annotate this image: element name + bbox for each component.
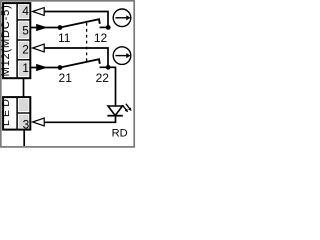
svg-text:22: 22 — [96, 71, 110, 85]
svg-text:3: 3 — [23, 118, 30, 132]
svg-text:21: 21 — [59, 71, 73, 85]
svg-text:2: 2 — [22, 43, 29, 57]
svg-text:12: 12 — [94, 31, 108, 45]
svg-text:RD: RD — [112, 128, 128, 140]
svg-text:LED: LED — [0, 96, 12, 126]
svg-text:4: 4 — [22, 4, 29, 18]
svg-text:M12(MDC-5): M12(MDC-5) — [0, 4, 12, 76]
svg-text:1: 1 — [22, 61, 29, 75]
svg-text:5: 5 — [22, 24, 29, 38]
svg-text:11: 11 — [58, 31, 71, 45]
